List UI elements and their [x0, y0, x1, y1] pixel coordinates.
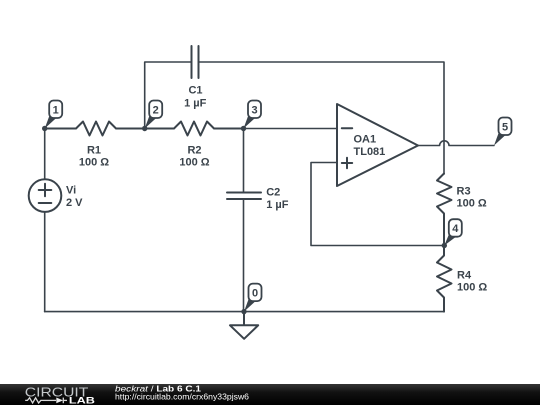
- node 1 junction dot: [42, 126, 47, 131]
- svg-text:R2: R2: [187, 145, 201, 157]
- node 2 junction dot: [142, 126, 147, 131]
- node 3 junction dot: [241, 126, 246, 131]
- wire opamp output with hop over feedback wire: [418, 141, 494, 146]
- wire C2 to ground rail: [243, 199, 245, 312]
- svg-text:1 µF: 1 µF: [266, 199, 289, 211]
- svg-text:LAB: LAB: [69, 395, 95, 405]
- ground symbol: [230, 312, 258, 339]
- op-amp plus symbol: [342, 158, 352, 168]
- capacitor C1: [192, 46, 199, 78]
- svg-text:R4: R4: [457, 269, 472, 281]
- svg-text:100 Ω: 100 Ω: [457, 282, 487, 294]
- wire source to bottom rail: [44, 212, 46, 311]
- op-amp U1 triangle: [337, 104, 418, 186]
- op-amp minus symbol: [342, 127, 352, 129]
- wire opamp plus input to node4: [311, 163, 444, 246]
- resistor R3: [437, 174, 452, 246]
- footer logo schematic squiggle: [25, 398, 67, 404]
- svg-text:100 Ω: 100 Ω: [457, 198, 487, 210]
- svg-text:C2: C2: [266, 186, 280, 198]
- resistor R1: [45, 122, 145, 136]
- svg-text:OA1: OA1: [354, 134, 377, 146]
- node flag 3: [244, 101, 262, 129]
- wire node1 to opamp minus (main row, via R1/R2 leads drawn in resistor paths): [244, 128, 338, 130]
- node flag 0: [244, 284, 262, 312]
- svg-text:R3: R3: [457, 185, 471, 197]
- resistor R2: [145, 122, 244, 136]
- svg-text:4: 4: [452, 223, 459, 235]
- node flag 4: [444, 219, 462, 245]
- svg-text:100 Ω: 100 Ω: [179, 157, 209, 169]
- wire node3 down to C2: [243, 129, 245, 193]
- wire node2 up and across to C1: [145, 62, 192, 129]
- svg-text:http://circuitlab.com/crx6ny33: http://circuitlab.com/crx6ny33pjsw6: [115, 392, 249, 402]
- svg-text:TL081: TL081: [354, 146, 386, 158]
- footer bar: [0, 384, 540, 405]
- svg-text:1: 1: [53, 104, 59, 116]
- capacitor C2: [227, 193, 261, 200]
- node 0 junction dot: [241, 309, 246, 314]
- voltage source Vi: [29, 179, 62, 212]
- wire C1 to top right corner and down: [199, 62, 445, 174]
- node flag 2: [145, 101, 163, 129]
- wire bottom rail: [45, 311, 444, 313]
- svg-text:3: 3: [251, 104, 257, 116]
- footer logo diode: [56, 398, 63, 404]
- svg-text:Vi: Vi: [66, 184, 76, 196]
- svg-text:2 V: 2 V: [66, 197, 83, 209]
- svg-text:C1: C1: [188, 84, 202, 96]
- svg-text:R1: R1: [87, 145, 101, 157]
- node 4 junction dot: [442, 243, 447, 248]
- svg-text:100 Ω: 100 Ω: [79, 157, 109, 169]
- svg-text:1 µF: 1 µF: [184, 97, 207, 109]
- node flag 5: [494, 118, 512, 146]
- svg-text:5: 5: [502, 121, 508, 133]
- svg-text:2: 2: [153, 104, 159, 116]
- svg-text:0: 0: [252, 288, 258, 300]
- resistor R4: [437, 246, 452, 312]
- node flag 1: [45, 101, 63, 129]
- wire node1 down to source: [44, 129, 46, 180]
